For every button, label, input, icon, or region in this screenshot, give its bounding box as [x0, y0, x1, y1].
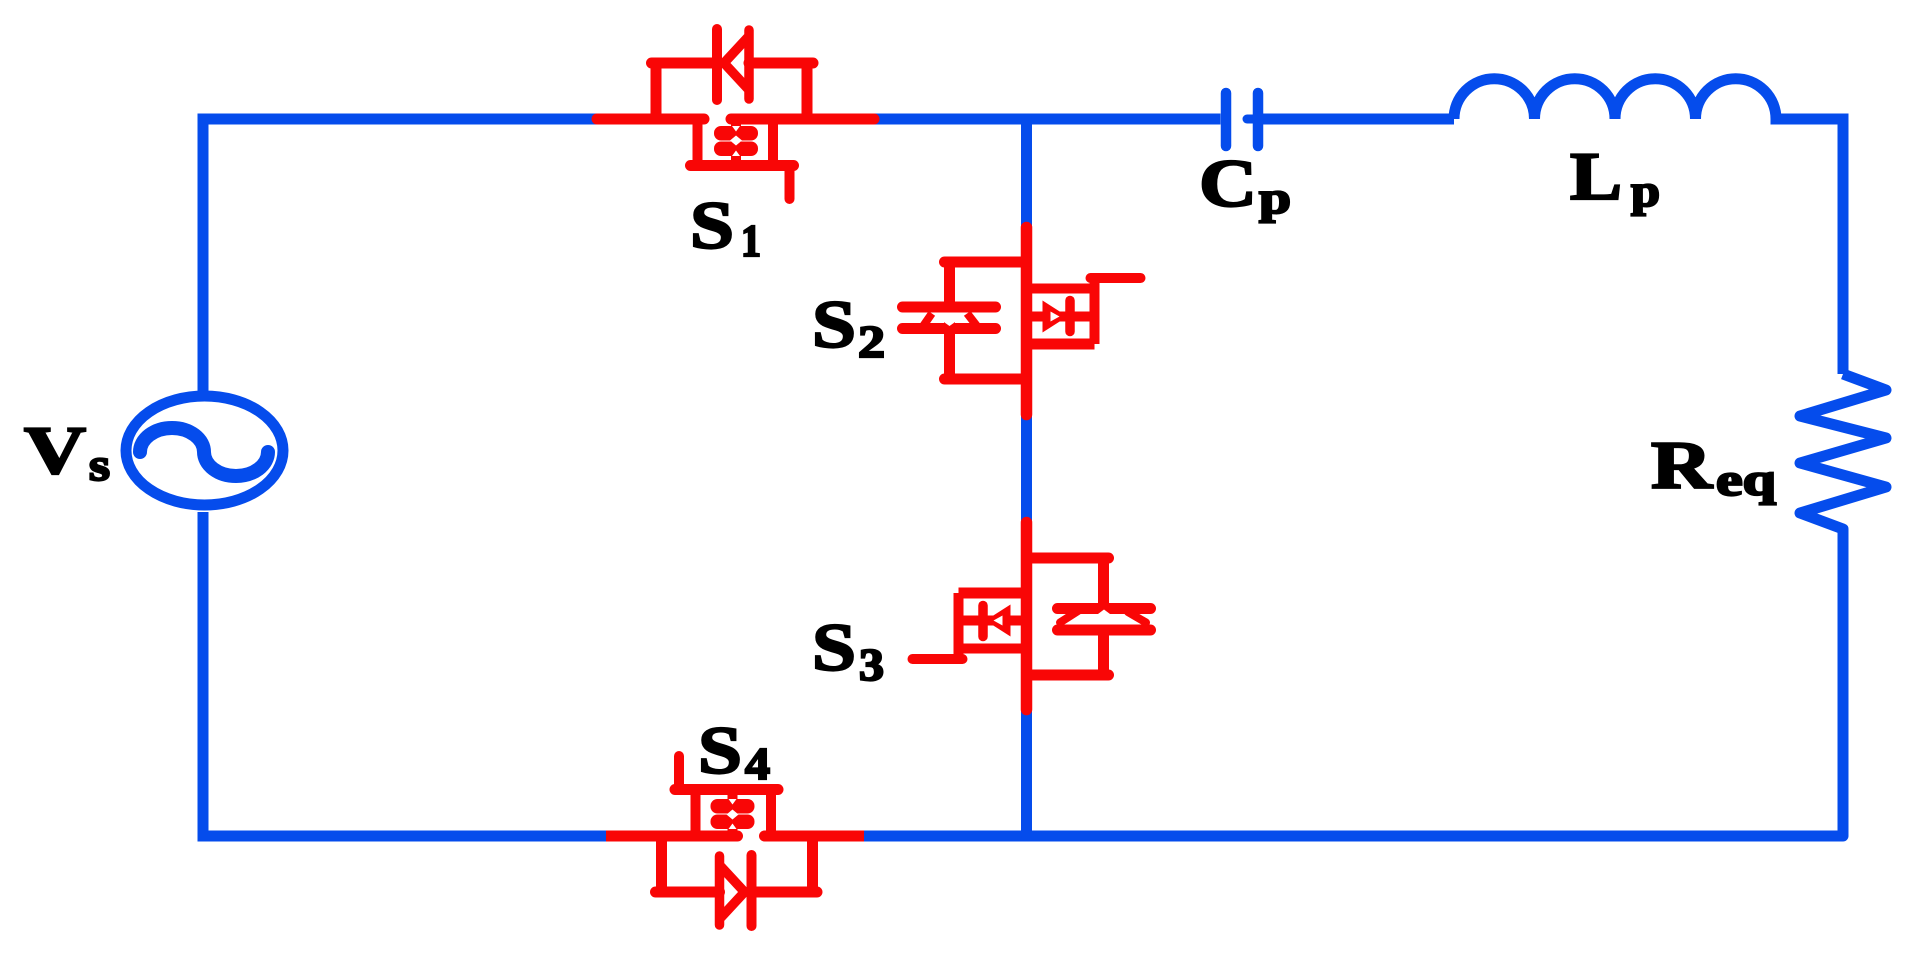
svg-text:V: V	[24, 412, 86, 488]
svg-text:s: s	[89, 440, 110, 490]
capacitor Cp left plate	[1221, 93, 1232, 146]
inductor Lp coils and right corner	[1454, 79, 1843, 374]
svg-text:2: 2	[858, 317, 885, 367]
S2 diode white triangle	[931, 313, 969, 327]
svg-text:S: S	[698, 712, 742, 788]
voltage source Vs sine wave	[140, 428, 268, 476]
svg-text:3: 3	[859, 640, 884, 690]
wire middle branch upper	[1021, 119, 1032, 229]
wire left-bottom run	[203, 512, 609, 836]
switch S2 (MOSFET with antiparallel diode)	[903, 228, 1141, 415]
switch S1 (MOSFET with antiparallel diode)	[597, 29, 874, 199]
svg-text:4: 4	[745, 739, 770, 789]
wire middle branch mid	[1021, 413, 1032, 524]
svg-text:1: 1	[741, 216, 761, 266]
voltage source Vs circle	[126, 396, 283, 505]
capacitor Cp nub	[1247, 115, 1254, 124]
svg-text:S: S	[812, 609, 856, 685]
S3 diode right diagonal	[1128, 612, 1146, 623]
wire top middle (S1 to Cp)	[874, 114, 1221, 125]
S3 diode left diagonal	[1060, 611, 1078, 623]
svg-text:R: R	[1651, 427, 1713, 503]
capacitor Cp right plate	[1253, 93, 1264, 146]
wire top-left run	[203, 119, 600, 392]
svg-text:L: L	[1570, 138, 1622, 214]
wire patch over S4 right stub	[864, 831, 878, 842]
wire middle branch lower	[1021, 709, 1032, 836]
svg-text:S: S	[812, 286, 856, 362]
svg-text:C: C	[1199, 145, 1257, 221]
svg-text:S: S	[690, 187, 734, 263]
switch S4 (MOSFET with antiparallel diode)	[595, 756, 872, 926]
S2 diode left diagonal	[924, 313, 933, 326]
wire Cp to Lp	[1263, 114, 1454, 125]
svg-text:p: p	[1631, 166, 1660, 216]
resistor Req zigzag and bottom-right run	[872, 374, 1886, 836]
S3 diode white triangle	[1084, 610, 1124, 625]
svg-text:eq: eq	[1716, 455, 1776, 505]
S2 diode right diagonal	[967, 313, 977, 326]
switch S3 (MOSFET with antiparallel diode)	[913, 523, 1151, 710]
svg-text:p: p	[1259, 173, 1291, 223]
wire patch over S4 left stub	[587, 831, 606, 842]
